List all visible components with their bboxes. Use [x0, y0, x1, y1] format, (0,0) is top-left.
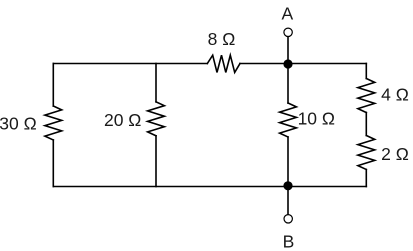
svg-text:8 Ω: 8 Ω: [208, 29, 236, 49]
svg-text:4 Ω: 4 Ω: [381, 84, 409, 104]
svg-text:10 Ω: 10 Ω: [298, 108, 335, 128]
svg-text:2 Ω: 2 Ω: [381, 144, 409, 164]
svg-text:20 Ω: 20 Ω: [104, 110, 141, 130]
svg-text:30 Ω: 30 Ω: [0, 113, 37, 133]
svg-text:A: A: [282, 3, 294, 23]
svg-text:B: B: [283, 231, 295, 251]
